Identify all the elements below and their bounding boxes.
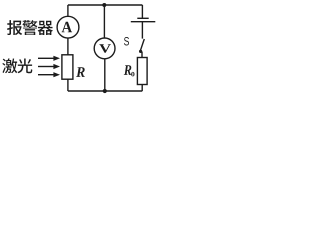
voltmeter letter V (99, 44, 111, 53)
node junction top (102, 3, 106, 7)
wire resistor R to bottom rail (67, 79, 69, 91)
wire switch to resistor R0 (141, 52, 143, 58)
wire ammeter to resistor R (67, 38, 69, 55)
node junction bottom (103, 89, 107, 93)
battery negative plate (short) (137, 17, 148, 19)
wire bottom rail (68, 90, 142, 92)
laser beam arrow 3 (38, 74, 54, 76)
wire right vertical (top rail to battery) (141, 5, 143, 18)
wire resistor R0 to bottom rail (141, 85, 143, 92)
wire top rail (68, 4, 142, 6)
ammeter A meter circle (57, 16, 79, 38)
label S (124, 37, 129, 45)
laser beam arrow 2 (38, 66, 54, 68)
wire middle vertical (top junction to voltmeter) (103, 5, 105, 38)
label laser text 激光 (2, 58, 32, 73)
switch S blade (140, 39, 144, 51)
voltmeter V meter circle (94, 38, 115, 59)
label R (76, 67, 85, 77)
switch S contact dot (139, 50, 142, 53)
battery positive plate (long) (131, 21, 156, 23)
resistor R (photoresistor box) (62, 55, 73, 79)
wire left vertical (top rail to ammeter) (67, 5, 69, 17)
wire voltmeter to bottom junction (104, 59, 106, 91)
laser beam arrow 1 (38, 57, 54, 59)
ammeter letter A (62, 22, 72, 32)
wire battery to switch (141, 22, 143, 39)
resistor R0 box (137, 58, 147, 85)
label R0 (124, 65, 132, 75)
label alarm text 报警器 (7, 20, 53, 35)
